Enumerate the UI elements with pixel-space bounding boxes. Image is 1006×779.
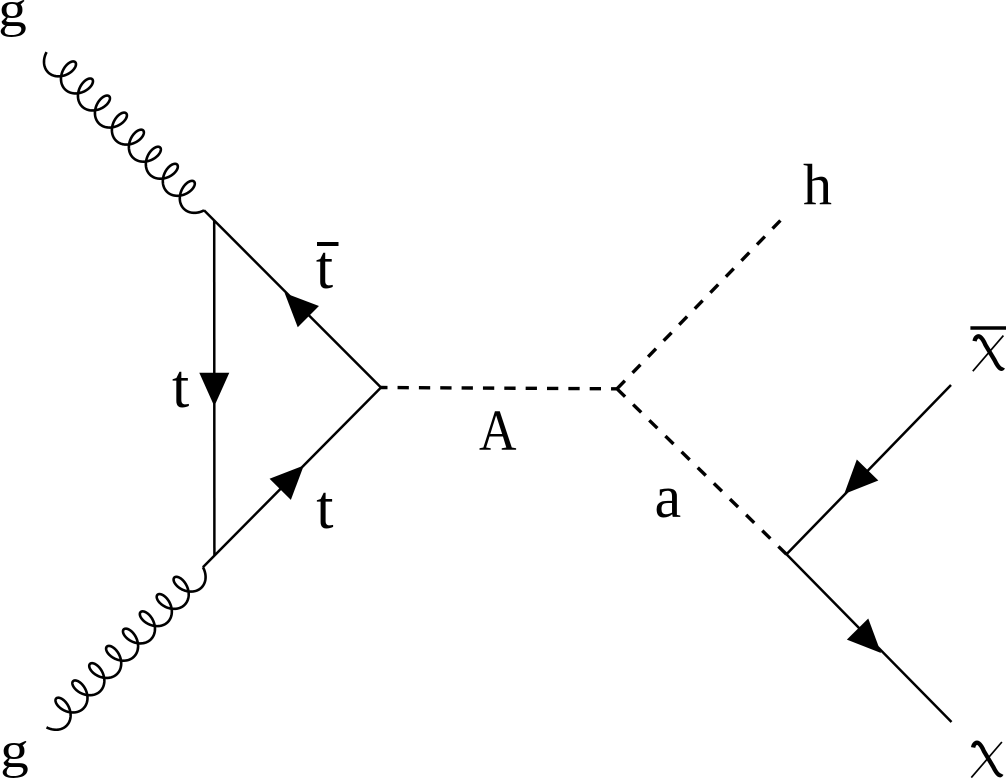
svg-text:a: a bbox=[655, 464, 682, 530]
propagator a (dashed) bbox=[617, 389, 787, 555]
arrow on vertical t line bbox=[199, 373, 229, 407]
gluon g (bottom incoming) bbox=[47, 567, 206, 730]
arrow on chibar line bbox=[844, 460, 878, 494]
svg-text:t: t bbox=[316, 474, 333, 542]
arrow on tbar line bbox=[285, 293, 319, 327]
svg-text:g: g bbox=[0, 723, 29, 779]
gluon g (top incoming) bbox=[44, 52, 204, 213]
wire: chi outgoing bbox=[787, 554, 952, 722]
arrow on lower t line bbox=[270, 466, 304, 500]
wire: top-quark loop line t (left vertical) bbox=[213, 221, 216, 556]
svg-text:A: A bbox=[479, 398, 517, 463]
svg-text:h: h bbox=[803, 152, 832, 217]
wire: top-quark loop line t (lower diagonal) bbox=[203, 388, 381, 568]
overline of chibar bbox=[970, 326, 1006, 330]
wire: top-quark loop line tbar (upper diagonal) bbox=[204, 210, 381, 387]
propagator A (dashed) bbox=[381, 388, 617, 389]
label chi (drawn chi glyph) bbox=[971, 742, 1002, 778]
propagator h (dashed) bbox=[617, 221, 780, 389]
arrow on chi line bbox=[847, 619, 881, 653]
svg-text:t: t bbox=[172, 353, 189, 421]
wire: chibar outgoing bbox=[787, 385, 952, 554]
svg-text:g: g bbox=[0, 0, 27, 38]
label chibar (drawn chi glyph) bbox=[973, 336, 1004, 372]
overline of tbar bbox=[317, 242, 339, 246]
